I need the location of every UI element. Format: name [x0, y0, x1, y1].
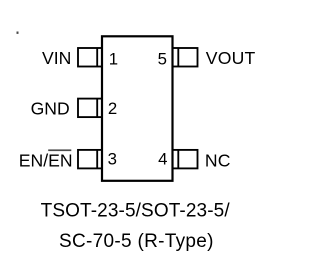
svg-text:VOUT: VOUT [206, 48, 256, 68]
svg-text:VIN: VIN [42, 48, 71, 68]
svg-text:TSOT-23-5/SOT-23-5/: TSOT-23-5/SOT-23-5/ [41, 201, 231, 222]
overline over second EN [48, 149, 71, 151]
pin 5 pad [173, 48, 198, 67]
svg-text:EN/EN: EN/EN [19, 151, 73, 171]
svg-text:4: 4 [158, 150, 167, 169]
pin 4 pad [173, 150, 198, 169]
svg-text:3: 3 [108, 150, 117, 169]
svg-text:NC: NC [205, 150, 231, 170]
pin 3 pad [78, 150, 102, 169]
svg-text:1: 1 [109, 49, 118, 68]
svg-text:GND: GND [31, 99, 70, 119]
svg-text:SC-70-5 (R-Type): SC-70-5 (R-Type) [59, 231, 214, 252]
svg-text:5: 5 [158, 49, 167, 68]
pin 1 pad [78, 48, 102, 67]
IC body U1 [102, 36, 173, 181]
stray dot artifact [17, 32, 19, 34]
pin 2 pad [78, 99, 102, 118]
svg-text:2: 2 [108, 99, 117, 118]
